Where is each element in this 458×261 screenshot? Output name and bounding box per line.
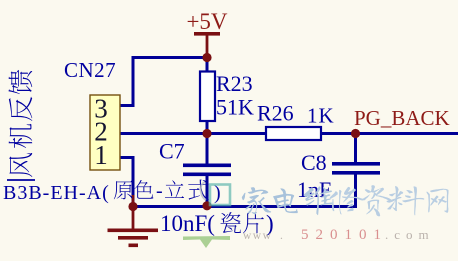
svg-text:C7: C7	[159, 139, 185, 164]
svg-text:-: -	[156, 180, 163, 202]
svg-text:1: 1	[94, 140, 108, 170]
svg-text:1K: 1K	[307, 104, 335, 128]
svg-text:10nF(: 10nF(	[160, 211, 215, 236]
svg-text:R26: R26	[257, 101, 294, 126]
svg-text:PG_BACK: PG_BACK	[354, 106, 450, 130]
svg-text:51K: 51K	[216, 95, 254, 120]
svg-text:www: www	[243, 230, 272, 242]
svg-text:R23: R23	[216, 71, 253, 96]
svg-text:CN27: CN27	[64, 58, 116, 82]
svg-text:520101: 520101	[301, 227, 388, 243]
svg-text:B3B-EH-A(: B3B-EH-A(	[3, 182, 110, 204]
svg-text:.com: .com	[385, 227, 435, 242]
svg-text:+5V: +5V	[186, 9, 227, 34]
svg-text:.: .	[280, 230, 283, 242]
svg-text:C8: C8	[301, 150, 327, 175]
